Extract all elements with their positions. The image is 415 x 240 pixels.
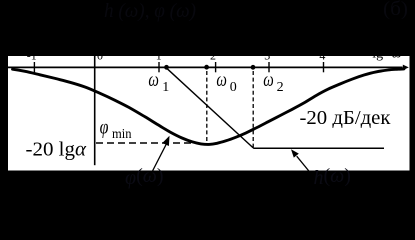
- svg-text:h(ω): h(ω): [314, 165, 351, 189]
- dashed vertical at omega0: [206, 71, 208, 144]
- node dot omega2 on axis: [251, 65, 256, 70]
- arrowhead to curve: [162, 136, 169, 146]
- phi min dashed level line: [96, 142, 191, 144]
- svg-text:φ: φ: [100, 117, 109, 139]
- svg-text:ω: ω: [392, 47, 402, 62]
- svg-text:φ(ω): φ(ω): [125, 165, 164, 189]
- axis lg omega (horizontal): [8, 66, 403, 68]
- svg-text:2: 2: [210, 49, 216, 63]
- phase curve (thick): [13, 69, 405, 145]
- svg-text:(б): (б): [383, 0, 408, 20]
- asymptote horizontal line: [253, 147, 384, 149]
- arrowhead to asymptote: [291, 149, 299, 157]
- axis arrowhead: [403, 65, 409, 71]
- tick 1: [158, 62, 160, 72]
- svg-text:h (ω), φ (ω): h (ω), φ (ω): [104, 0, 196, 22]
- svg-text:-1: -1: [27, 49, 37, 63]
- svg-text:min: min: [112, 127, 132, 142]
- svg-text:2: 2: [277, 80, 284, 95]
- svg-text:0: 0: [230, 80, 237, 95]
- tick 2: [215, 62, 217, 72]
- svg-text:ω: ω: [148, 69, 159, 91]
- node dot omega1 on axis: [164, 65, 169, 70]
- svg-text:-20 lgα: -20 lgα: [26, 138, 87, 160]
- tick 3: [268, 62, 270, 72]
- svg-text:3: 3: [264, 49, 270, 63]
- svg-text:1: 1: [162, 80, 169, 95]
- svg-text:-20 дБ/дек: -20 дБ/дек: [300, 107, 391, 129]
- arrow line from h(w) label to asymptote: [297, 156, 311, 173]
- tick -1: [33, 62, 35, 72]
- arrow line from phi(w) label to curve: [152, 144, 166, 172]
- plot white area: [8, 56, 410, 171]
- svg-text:ω: ω: [263, 69, 274, 91]
- svg-text:4: 4: [319, 49, 325, 63]
- vertical line at lg w = 0: [94, 56, 96, 165]
- svg-text:lg: lg: [372, 47, 383, 62]
- node dot omega0 on axis: [204, 65, 209, 70]
- svg-text:0: 0: [97, 49, 103, 63]
- tick 4: [323, 62, 325, 72]
- svg-text:1: 1: [156, 49, 162, 63]
- svg-text:ω: ω: [216, 69, 227, 91]
- dashed vertical at omega2: [252, 71, 254, 148]
- asymptote diagonal -20dB/dec line: [167, 68, 254, 148]
